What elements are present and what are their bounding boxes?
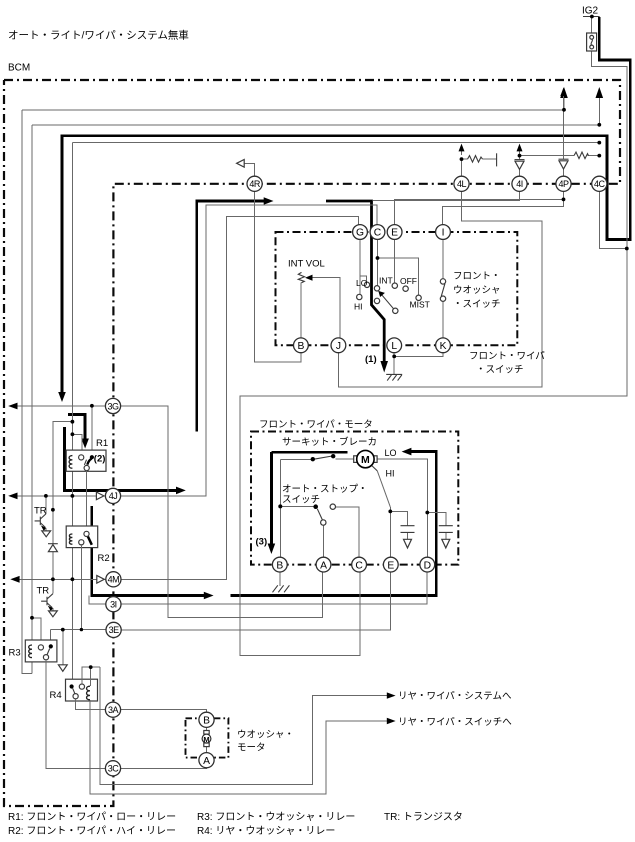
svg-text:・スイッチ: ・スイッチ (476, 365, 524, 376)
svg-text:R3: フロント・ウオッシャ・リレー: R3: フロント・ウオッシャ・リレー (197, 811, 355, 823)
svg-text:オート・ストップ・: オート・ストップ・ (282, 484, 368, 495)
svg-text:C: C (355, 560, 363, 571)
svg-text:D: D (424, 560, 431, 571)
svg-text:C: C (374, 228, 382, 239)
svg-text:J: J (336, 341, 341, 352)
svg-text:B: B (276, 560, 283, 571)
svg-text:BCM: BCM (8, 63, 30, 74)
svg-text:(2): (2) (94, 454, 106, 465)
svg-text:A: A (203, 756, 210, 767)
svg-text:MIST: MIST (410, 300, 430, 310)
svg-text:モータ: モータ (237, 743, 266, 754)
svg-text:E: E (391, 228, 398, 239)
svg-text:R2: R2 (98, 553, 110, 564)
svg-text:フロント・ワイパ: フロント・ワイパ (469, 351, 545, 362)
svg-text:4R: 4R (249, 179, 261, 189)
svg-text:サーキット・ブレーカ: サーキット・ブレーカ (282, 436, 377, 448)
svg-text:3A: 3A (108, 705, 119, 715)
svg-text:G: G (356, 228, 364, 239)
svg-text:TR: TR (37, 586, 50, 597)
svg-text:B: B (203, 716, 210, 727)
svg-text:(3): (3) (256, 537, 268, 548)
svg-text:オート・ライト/ワイパ・システム無車: オート・ライト/ワイパ・システム無車 (8, 29, 189, 42)
svg-text:R3: R3 (9, 648, 21, 659)
svg-text:(1): (1) (365, 354, 377, 365)
svg-text:L: L (391, 341, 397, 352)
svg-text:ウオッシャ・: ウオッシャ・ (237, 730, 294, 741)
svg-text:K: K (440, 341, 447, 352)
svg-text:3E: 3E (109, 625, 120, 635)
svg-text:HI: HI (386, 469, 395, 479)
svg-text:リヤ・ワイパ・スイッチへ: リヤ・ワイパ・スイッチへ (398, 717, 512, 728)
svg-text:B: B (297, 341, 304, 352)
svg-text:LO: LO (356, 278, 368, 288)
svg-text:3C: 3C (108, 764, 120, 774)
svg-text:TR: TR (34, 506, 47, 517)
svg-text:スイッチ: スイッチ (282, 495, 320, 506)
svg-text:4P: 4P (558, 179, 569, 189)
svg-text:4J: 4J (109, 491, 118, 501)
svg-text:フロント・: フロント・ (453, 271, 501, 282)
svg-text:4I: 4I (516, 179, 523, 189)
svg-text:・スイッチ: ・スイッチ (453, 299, 501, 310)
svg-text:3I: 3I (110, 600, 117, 610)
svg-text:R2: フロント・ワイパ・ハイ・リレー: R2: フロント・ワイパ・ハイ・リレー (8, 825, 176, 837)
svg-text:A: A (320, 560, 327, 571)
svg-text:4M: 4M (108, 575, 120, 585)
svg-text:HI: HI (354, 302, 363, 312)
svg-text:INT VOL: INT VOL (288, 259, 325, 270)
svg-text:OFF: OFF (400, 276, 417, 286)
svg-text:I: I (442, 228, 445, 239)
svg-text:LO: LO (385, 448, 397, 458)
svg-text:ウオッシャ: ウオッシャ (453, 285, 501, 296)
svg-text:TR: トランジスタ: TR: トランジスタ (384, 811, 463, 823)
svg-text:3G: 3G (107, 401, 119, 411)
svg-text:フロント・ワイパ・モータ: フロント・ワイパ・モータ (259, 420, 373, 431)
svg-text:INT: INT (379, 276, 393, 286)
svg-text:R1: R1 (96, 438, 108, 449)
svg-text:R4: リヤ・ウオッシャ・リレー: R4: リヤ・ウオッシャ・リレー (197, 825, 335, 837)
svg-text:IG2: IG2 (582, 6, 599, 17)
svg-text:R4: R4 (50, 690, 62, 701)
svg-text:E: E (387, 560, 394, 571)
svg-text:4L: 4L (457, 179, 467, 189)
svg-text:4C: 4C (594, 179, 606, 189)
svg-text:リヤ・ワイパ・システムへ: リヤ・ワイパ・システムへ (398, 691, 512, 702)
svg-text:R1: フロント・ワイパ・ロー・リレー: R1: フロント・ワイパ・ロー・リレー (8, 811, 176, 823)
